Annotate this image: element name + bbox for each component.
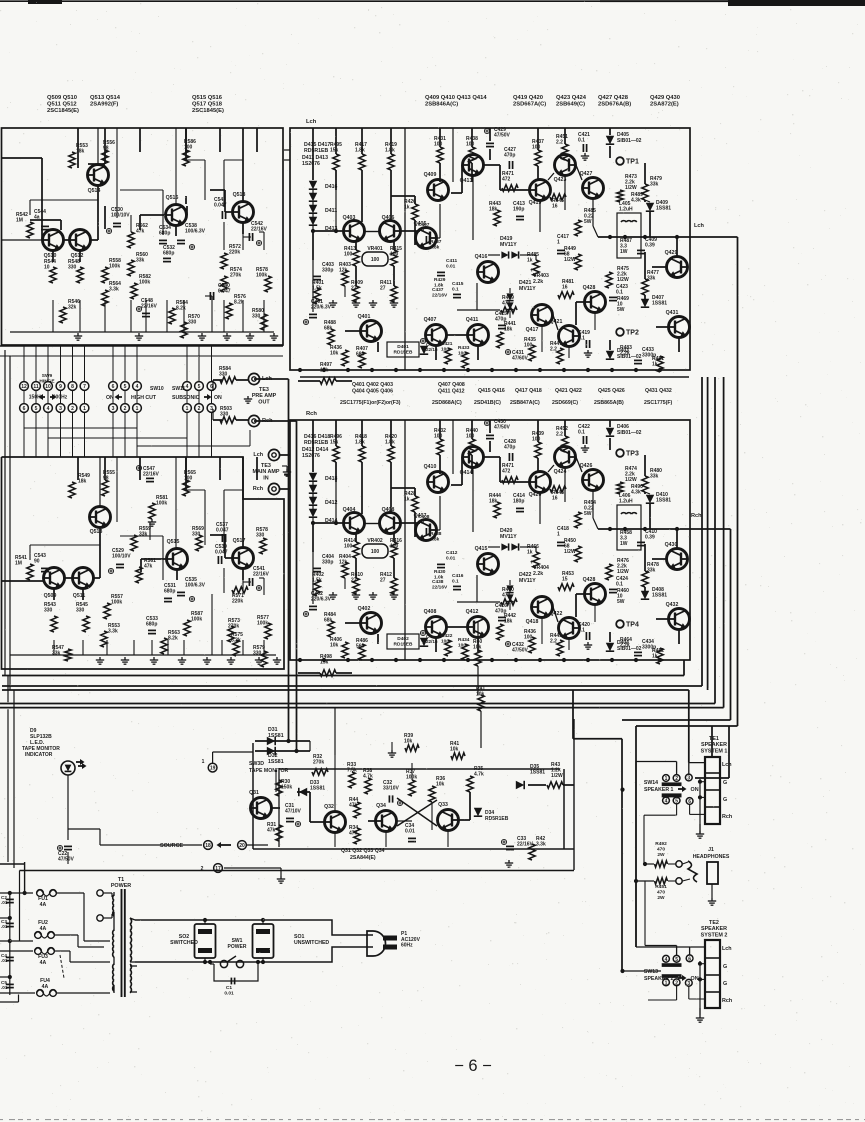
svg-text:J1: J1 xyxy=(708,847,714,853)
svg-text:SUBSONIC: SUBSONIC xyxy=(172,395,200,401)
svg-text:0.01: 0.01 xyxy=(446,263,456,269)
svg-text:33k: 33k xyxy=(52,651,61,657)
svg-text:16: 16 xyxy=(552,496,558,502)
svg-text:90: 90 xyxy=(34,559,40,565)
svg-text:1SS81: 1SS81 xyxy=(656,498,671,504)
svg-text:MV11Y: MV11Y xyxy=(519,286,536,292)
svg-text:R421: R421 xyxy=(441,341,453,347)
svg-text:0.1: 0.1 xyxy=(616,582,623,588)
svg-text:1W: 1W xyxy=(620,541,628,547)
svg-text:8.2k: 8.2k xyxy=(168,636,178,642)
svg-text:0.047: 0.047 xyxy=(214,203,227,209)
svg-text:SIB01—02: SIB01—02 xyxy=(617,138,642,144)
svg-text:0.1: 0.1 xyxy=(578,628,585,634)
svg-text:D401: D401 xyxy=(397,344,409,350)
svg-text:Q428: Q428 xyxy=(583,577,596,583)
svg-text:3: 3 xyxy=(687,981,690,987)
svg-text:SIB01—02: SIB01—02 xyxy=(617,430,642,436)
svg-text:2.2k: 2.2k xyxy=(533,571,543,577)
svg-text:Q427: Q427 xyxy=(580,171,593,177)
svg-text:MV11Y: MV11Y xyxy=(519,578,536,584)
svg-text:Q31: Q31 xyxy=(249,790,259,796)
svg-text:Q517 Q518: Q517 Q518 xyxy=(192,102,223,108)
svg-text:0.39: 0.39 xyxy=(645,243,655,249)
svg-text:PRE AMP: PRE AMP xyxy=(252,393,277,399)
svg-text:330p: 330p xyxy=(322,268,333,274)
svg-text:0.1: 0.1 xyxy=(578,430,585,436)
svg-text:9: 9 xyxy=(59,384,62,390)
svg-text:16: 16 xyxy=(552,204,558,210)
svg-text:47k: 47k xyxy=(136,229,145,235)
svg-text:G: G xyxy=(723,981,727,987)
svg-text:SPEAKER: SPEAKER xyxy=(701,926,727,932)
svg-text:Q509 Q510: Q509 Q510 xyxy=(47,95,77,101)
svg-text:1SS81: 1SS81 xyxy=(656,206,671,212)
svg-text:OUT: OUT xyxy=(258,399,270,405)
svg-text:C416: C416 xyxy=(452,573,464,579)
svg-text:10k: 10k xyxy=(330,351,339,357)
svg-text:47/50V: 47/50V xyxy=(58,857,75,863)
svg-text:2: 2 xyxy=(124,406,127,412)
svg-text:472: 472 xyxy=(502,469,511,475)
svg-text:Q417: Q417 xyxy=(526,327,539,333)
svg-text:47/50V: 47/50V xyxy=(494,425,511,431)
svg-text:POWER: POWER xyxy=(228,944,247,950)
svg-text:C1: C1 xyxy=(226,985,232,991)
svg-text:180p: 180p xyxy=(513,499,524,505)
svg-text:10: 10 xyxy=(44,265,50,271)
svg-text:R492: R492 xyxy=(655,841,667,847)
svg-text:Q419 Q420: Q419 Q420 xyxy=(513,95,543,101)
svg-text:Q428: Q428 xyxy=(583,285,596,291)
svg-text:Q410: Q410 xyxy=(424,464,437,470)
svg-text:Q401: Q401 xyxy=(358,314,371,320)
svg-text:680p: 680p xyxy=(163,251,174,257)
svg-text:4A: 4A xyxy=(42,984,49,990)
svg-text:Q415 Q416: Q415 Q416 xyxy=(478,388,505,394)
svg-text:2SB846A(C): 2SB846A(C) xyxy=(425,102,458,108)
svg-text:4: 4 xyxy=(136,384,139,390)
svg-text:100k: 100k xyxy=(139,280,150,286)
svg-text:UNSWITCHED: UNSWITCHED xyxy=(294,940,329,946)
svg-text:2.2: 2.2 xyxy=(556,140,563,146)
svg-text:100k: 100k xyxy=(111,600,122,606)
svg-text:2SD41B(C): 2SD41B(C) xyxy=(474,400,501,406)
svg-text:RD5R1EB: RD5R1EB xyxy=(304,148,328,154)
svg-text:R488: R488 xyxy=(430,531,442,537)
svg-text:RD5R1EB: RD5R1EB xyxy=(304,440,328,446)
svg-text:0.01: 0.01 xyxy=(446,555,456,561)
svg-text:ON: ON xyxy=(214,395,222,401)
svg-text:470p: 470p xyxy=(504,445,515,451)
svg-text:SW11: SW11 xyxy=(172,386,186,392)
svg-text:472: 472 xyxy=(502,177,511,183)
svg-text:RD15EB: RD15EB xyxy=(394,350,413,356)
svg-text:1.2uH: 1.2uH xyxy=(619,499,633,505)
svg-text:2SB865A(B): 2SB865A(B) xyxy=(594,400,624,406)
svg-text:60Hz: 60Hz xyxy=(401,943,413,949)
svg-text:Rch: Rch xyxy=(691,513,702,519)
svg-text:0.047: 0.047 xyxy=(215,550,228,556)
svg-text:1S2076: 1S2076 xyxy=(302,453,320,459)
svg-text:100k: 100k xyxy=(191,617,202,623)
svg-text:1.8k: 1.8k xyxy=(355,148,365,154)
svg-text:1.8k: 1.8k xyxy=(355,440,365,446)
svg-text:Q33: Q33 xyxy=(438,802,448,808)
svg-text:Q416: Q416 xyxy=(475,254,488,260)
svg-text:Q407: Q407 xyxy=(414,513,427,519)
svg-text:330: 330 xyxy=(188,320,197,326)
svg-text:22/16V: 22/16V xyxy=(253,572,270,578)
svg-text:ON: ON xyxy=(691,787,699,793)
svg-text:Q408: Q408 xyxy=(424,609,437,615)
svg-text:1: 1 xyxy=(136,406,139,412)
svg-text:MV11Y: MV11Y xyxy=(500,534,517,540)
svg-text:4A: 4A xyxy=(40,960,47,966)
svg-text:RD5R1EB: RD5R1EB xyxy=(485,816,509,822)
svg-text:Q407: Q407 xyxy=(424,317,437,323)
svg-text:1.0k: 1.0k xyxy=(434,574,444,580)
svg-text:Q32: Q32 xyxy=(324,804,334,810)
svg-text:0.1: 0.1 xyxy=(452,578,459,584)
svg-text:Q513 Q514: Q513 Q514 xyxy=(90,95,121,101)
svg-text:18k: 18k xyxy=(504,619,513,625)
svg-text:2SC1845(E): 2SC1845(E) xyxy=(192,108,224,114)
svg-text:10: 10 xyxy=(45,384,51,390)
svg-text:Lch: Lch xyxy=(722,946,732,952)
svg-text:2: 2 xyxy=(198,406,201,412)
svg-text:2SD669(C): 2SD669(C) xyxy=(552,400,578,406)
svg-text:270k: 270k xyxy=(230,273,241,279)
svg-text:Q405: Q405 xyxy=(414,221,427,227)
svg-text:10k: 10k xyxy=(330,643,339,649)
svg-text:4A: 4A xyxy=(40,902,47,908)
svg-text:.01: .01 xyxy=(1,985,8,990)
svg-text:33k: 33k xyxy=(139,532,148,538)
svg-text:1SS81: 1SS81 xyxy=(530,770,545,776)
svg-text:R429: R429 xyxy=(434,277,446,283)
svg-text:Q402: Q402 xyxy=(358,606,371,612)
svg-text:2: 2 xyxy=(71,406,74,412)
svg-text:1: 1 xyxy=(186,406,189,412)
svg-text:R430: R430 xyxy=(434,569,446,575)
svg-text:5: 5 xyxy=(198,384,201,390)
svg-text:2SC1845(E): 2SC1845(E) xyxy=(47,108,79,114)
svg-text:330: 330 xyxy=(44,608,53,614)
svg-text:1S2076: 1S2076 xyxy=(302,161,320,167)
svg-text:C412: C412 xyxy=(446,550,458,556)
svg-text:4.3k: 4.3k xyxy=(631,198,641,204)
svg-text:MV11Y: MV11Y xyxy=(500,242,517,248)
svg-text:1k: 1k xyxy=(527,258,533,264)
svg-text:680p: 680p xyxy=(164,589,175,595)
svg-text:SW10: SW10 xyxy=(150,386,164,392)
svg-text:100: 100 xyxy=(371,257,380,263)
svg-text:220/6.3V: 220/6.3V xyxy=(311,597,332,603)
svg-text:0.1: 0.1 xyxy=(578,336,585,342)
svg-text:6: 6 xyxy=(688,799,691,805)
svg-text:100: 100 xyxy=(184,145,193,151)
svg-text:Rch: Rch xyxy=(722,814,732,820)
svg-text:D402: D402 xyxy=(397,636,409,642)
svg-text:2SD868A(C): 2SD868A(C) xyxy=(432,400,462,406)
svg-text:2SD676A(B): 2SD676A(B) xyxy=(598,102,631,108)
svg-text:2.2k: 2.2k xyxy=(620,351,630,357)
svg-text:TP2: TP2 xyxy=(626,330,639,337)
svg-text:19: 19 xyxy=(210,766,216,772)
svg-text:15k: 15k xyxy=(330,148,339,154)
svg-text:3: 3 xyxy=(112,406,115,412)
svg-text:47k: 47k xyxy=(267,828,276,834)
svg-text:1.8k: 1.8k xyxy=(434,282,444,288)
svg-text:1/2W: 1/2W xyxy=(625,477,637,483)
svg-text:47/10V: 47/10V xyxy=(285,809,302,815)
svg-text:4: 4 xyxy=(47,406,50,412)
svg-text:Q34: Q34 xyxy=(376,803,386,809)
svg-text:3: 3 xyxy=(59,406,62,412)
svg-text:20: 20 xyxy=(239,843,245,849)
svg-text:16: 16 xyxy=(562,285,568,291)
svg-text:D415 D417: D415 D417 xyxy=(304,142,330,148)
svg-text:2SC1775(F1)or(F2)or(F3): 2SC1775(F1)or(F2)or(F3) xyxy=(340,400,401,406)
svg-text:220/6.3V: 220/6.3V xyxy=(311,305,332,311)
svg-text:1.2uH: 1.2uH xyxy=(619,207,633,213)
svg-text:100/10V: 100/10V xyxy=(112,554,131,560)
svg-text:Lch: Lch xyxy=(722,762,732,768)
svg-text:4.7k: 4.7k xyxy=(474,772,484,778)
svg-text:2.2: 2.2 xyxy=(556,432,563,438)
svg-text:3.3k: 3.3k xyxy=(536,842,546,848)
svg-text:− 6 −: − 6 − xyxy=(454,1057,492,1075)
svg-text:0.047: 0.047 xyxy=(218,289,231,295)
svg-text:Q431: Q431 xyxy=(666,310,679,316)
svg-text:Q404 Q405 Q406: Q404 Q405 Q406 xyxy=(352,388,393,394)
svg-text:0.01: 0.01 xyxy=(405,829,415,835)
svg-text:190p: 190p xyxy=(513,207,524,213)
svg-text:RD15EB: RD15EB xyxy=(394,642,413,648)
svg-text:2SB847A(C): 2SB847A(C) xyxy=(510,400,540,406)
svg-text:330: 330 xyxy=(68,265,77,271)
svg-text:Q418: Q418 xyxy=(526,619,539,625)
svg-text:SW14: SW14 xyxy=(644,780,658,786)
svg-text:SWITCHED: SWITCHED xyxy=(170,940,198,946)
svg-text:G: G xyxy=(723,964,727,970)
svg-text:G: G xyxy=(723,780,727,786)
svg-text:TP1: TP1 xyxy=(626,159,639,166)
svg-text:.01: .01 xyxy=(1,900,8,905)
svg-text:10k: 10k xyxy=(473,645,482,651)
svg-text:22/16V: 22/16V xyxy=(432,584,448,590)
svg-text:1/2W: 1/2W xyxy=(617,569,629,575)
svg-text:2: 2 xyxy=(675,776,678,782)
svg-text:D411 D413: D411 D413 xyxy=(302,155,328,161)
svg-text:Q412: Q412 xyxy=(466,609,479,615)
svg-text:1.8k: 1.8k xyxy=(430,536,440,542)
svg-text:32k: 32k xyxy=(68,305,77,311)
svg-text:Rch: Rch xyxy=(253,486,263,492)
svg-text:Q408: Q408 xyxy=(382,507,395,513)
svg-text:TE1: TE1 xyxy=(709,736,719,742)
svg-text:1.8k: 1.8k xyxy=(385,440,395,446)
svg-text:1SS81: 1SS81 xyxy=(652,301,667,307)
svg-text:470: 470 xyxy=(657,889,665,895)
svg-text:6: 6 xyxy=(112,384,115,390)
svg-text:27: 27 xyxy=(380,286,386,292)
svg-text:5W: 5W xyxy=(617,599,625,605)
svg-text:Q411 Q412: Q411 Q412 xyxy=(438,388,465,394)
svg-text:3: 3 xyxy=(687,776,690,782)
svg-text:0.1: 0.1 xyxy=(578,138,585,144)
svg-text:47/50V: 47/50V xyxy=(512,648,529,654)
svg-text:VR402: VR402 xyxy=(367,538,383,544)
svg-text:Lch: Lch xyxy=(694,223,705,229)
svg-text:100/6.3V: 100/6.3V xyxy=(185,583,206,589)
svg-text:2SB649(C): 2SB649(C) xyxy=(556,102,585,108)
svg-text:Q423 Q424: Q423 Q424 xyxy=(556,95,587,101)
svg-text:2SA844(E): 2SA844(E) xyxy=(350,855,376,861)
svg-text:D416 D418: D416 D418 xyxy=(304,434,330,440)
svg-text:Q431 Q432: Q431 Q432 xyxy=(645,388,672,394)
svg-text:Rch: Rch xyxy=(306,411,317,417)
svg-text:1.8k: 1.8k xyxy=(385,148,395,154)
svg-text:Q515: Q515 xyxy=(167,539,180,545)
svg-text:IN: IN xyxy=(263,475,268,481)
svg-text:0.1: 0.1 xyxy=(452,286,459,292)
svg-text:2: 2 xyxy=(675,980,678,986)
svg-text:47/50V: 47/50V xyxy=(494,133,511,139)
svg-text:47k: 47k xyxy=(144,564,153,570)
svg-text:18k: 18k xyxy=(76,149,85,155)
svg-text:Q409 Q410 Q413 Q414: Q409 Q410 Q413 Q414 xyxy=(425,95,487,101)
svg-text:470: 470 xyxy=(657,846,665,852)
svg-text:1: 1 xyxy=(665,776,668,782)
svg-text:.01: .01 xyxy=(1,958,8,963)
svg-text:47/60V: 47/60V xyxy=(512,356,529,362)
svg-text:2SC1775(F): 2SC1775(F) xyxy=(644,400,673,406)
svg-text:2.2k: 2.2k xyxy=(620,643,630,649)
svg-text:1: 1 xyxy=(83,406,86,412)
svg-text:5W: 5W xyxy=(617,307,625,313)
svg-text:Q430: Q430 xyxy=(665,542,678,548)
svg-text:3.3k: 3.3k xyxy=(108,629,118,635)
svg-text:0.39: 0.39 xyxy=(645,535,655,541)
svg-text:1: 1 xyxy=(557,240,560,246)
svg-text:VR401: VR401 xyxy=(367,246,383,252)
svg-text:18k: 18k xyxy=(489,499,498,505)
svg-text:270k: 270k xyxy=(313,760,324,766)
svg-text:SYSTEM 2: SYSTEM 2 xyxy=(701,932,728,938)
svg-text:R433: R433 xyxy=(458,345,470,351)
svg-text:22/16V: 22/16V xyxy=(432,292,448,298)
svg-text:2SD667A(C): 2SD667A(C) xyxy=(513,102,546,108)
svg-text:22/16V: 22/16V xyxy=(143,472,160,478)
svg-text:TE3: TE3 xyxy=(261,463,271,469)
svg-text:1/2W: 1/2W xyxy=(617,277,629,283)
svg-text:1: 1 xyxy=(665,980,668,986)
svg-text:0.01: 0.01 xyxy=(224,990,234,996)
svg-text:18k: 18k xyxy=(489,207,498,213)
svg-text:Q31 Q32 Q33 Q34: Q31 Q32 Q33 Q34 xyxy=(341,848,385,854)
svg-text:1k: 1k xyxy=(527,550,533,556)
svg-text:5W: 5W xyxy=(584,511,592,517)
svg-text:4.3k: 4.3k xyxy=(631,490,641,496)
svg-text:SW3D: SW3D xyxy=(249,761,264,767)
svg-text:100k: 100k xyxy=(156,501,167,507)
svg-text:HIGH CUT: HIGH CUT xyxy=(131,395,157,401)
svg-text:1SS81: 1SS81 xyxy=(268,759,284,765)
svg-text:4: 4 xyxy=(186,384,189,390)
svg-text:1SS81: 1SS81 xyxy=(652,593,667,599)
svg-text:Q415: Q415 xyxy=(475,546,488,552)
svg-text:2SA872(E): 2SA872(E) xyxy=(650,102,679,108)
svg-text:D411: D411 xyxy=(325,208,337,214)
svg-text:C415: C415 xyxy=(452,281,464,287)
svg-text:6: 6 xyxy=(688,956,691,962)
svg-text:1W: 1W xyxy=(620,249,628,255)
svg-text:100: 100 xyxy=(344,544,353,550)
svg-text:SO2: SO2 xyxy=(179,934,189,940)
svg-text:HEADPHONES: HEADPHONES xyxy=(693,854,730,860)
svg-text:Q403: Q403 xyxy=(343,215,356,221)
svg-text:12: 12 xyxy=(21,384,27,390)
svg-text:TE2: TE2 xyxy=(709,920,719,926)
svg-text:1: 1 xyxy=(202,759,205,765)
svg-text:Q407 Q408: Q407 Q408 xyxy=(438,382,465,388)
svg-text:Q432: Q432 xyxy=(666,602,679,608)
svg-text:2W: 2W xyxy=(657,852,665,858)
svg-text:2.2k: 2.2k xyxy=(533,279,543,285)
svg-text:G: G xyxy=(723,797,727,803)
svg-text:18k: 18k xyxy=(78,479,87,485)
svg-text:4a: 4a xyxy=(34,215,40,221)
svg-text:Q409: Q409 xyxy=(424,172,437,178)
svg-text:Q427 Q428: Q427 Q428 xyxy=(598,95,629,101)
svg-text:Q404: Q404 xyxy=(343,507,356,513)
svg-text:8: 8 xyxy=(71,384,74,390)
svg-text:SW9: SW9 xyxy=(42,373,53,379)
svg-text:15k: 15k xyxy=(330,440,339,446)
svg-text:5: 5 xyxy=(35,406,38,412)
svg-text:Q421 Q422: Q421 Q422 xyxy=(555,388,582,394)
svg-text:D412 D414: D412 D414 xyxy=(302,447,328,453)
svg-text:SW13: SW13 xyxy=(644,969,658,975)
svg-text:Q511 Q512: Q511 Q512 xyxy=(47,102,77,108)
svg-text:33k: 33k xyxy=(136,258,145,264)
svg-text:1/2W: 1/2W xyxy=(551,773,563,779)
svg-text:680p: 680p xyxy=(146,622,157,628)
svg-text:Q425 Q426: Q425 Q426 xyxy=(598,388,625,394)
svg-text:TP4: TP4 xyxy=(626,622,639,629)
svg-text:C411: C411 xyxy=(446,258,458,264)
svg-text:10k: 10k xyxy=(436,782,445,788)
svg-text:5: 5 xyxy=(675,799,678,805)
svg-text:11: 11 xyxy=(33,384,39,390)
svg-text:330: 330 xyxy=(76,608,85,614)
svg-text:330p: 330p xyxy=(322,560,333,566)
svg-text:1: 1 xyxy=(557,532,560,538)
svg-text:SPEAKER: SPEAKER xyxy=(701,742,727,748)
svg-text:2W: 2W xyxy=(657,895,665,901)
svg-text:330: 330 xyxy=(252,314,261,320)
svg-text:150k: 150k xyxy=(281,785,292,791)
svg-text:100k: 100k xyxy=(109,264,120,270)
svg-text:Lch: Lch xyxy=(253,452,263,458)
svg-text:.01: .01 xyxy=(1,924,8,929)
svg-text:1/2W: 1/2W xyxy=(625,185,637,191)
svg-text:220k: 220k xyxy=(229,250,240,256)
svg-text:0.047: 0.047 xyxy=(216,528,229,534)
svg-text:SYSTEM 1: SYSTEM 1 xyxy=(701,748,728,754)
